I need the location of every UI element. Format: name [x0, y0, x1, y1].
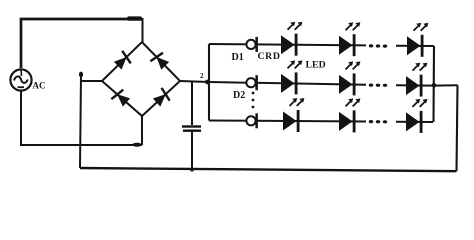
svg-text:D2: D2: [233, 90, 245, 101]
svg-text:CRD: CRD: [258, 51, 281, 62]
svg-text:D1: D1: [232, 52, 244, 63]
svg-text:AC: AC: [33, 81, 46, 91]
svg-text:2: 2: [200, 72, 204, 80]
svg-text:LED: LED: [306, 60, 326, 71]
